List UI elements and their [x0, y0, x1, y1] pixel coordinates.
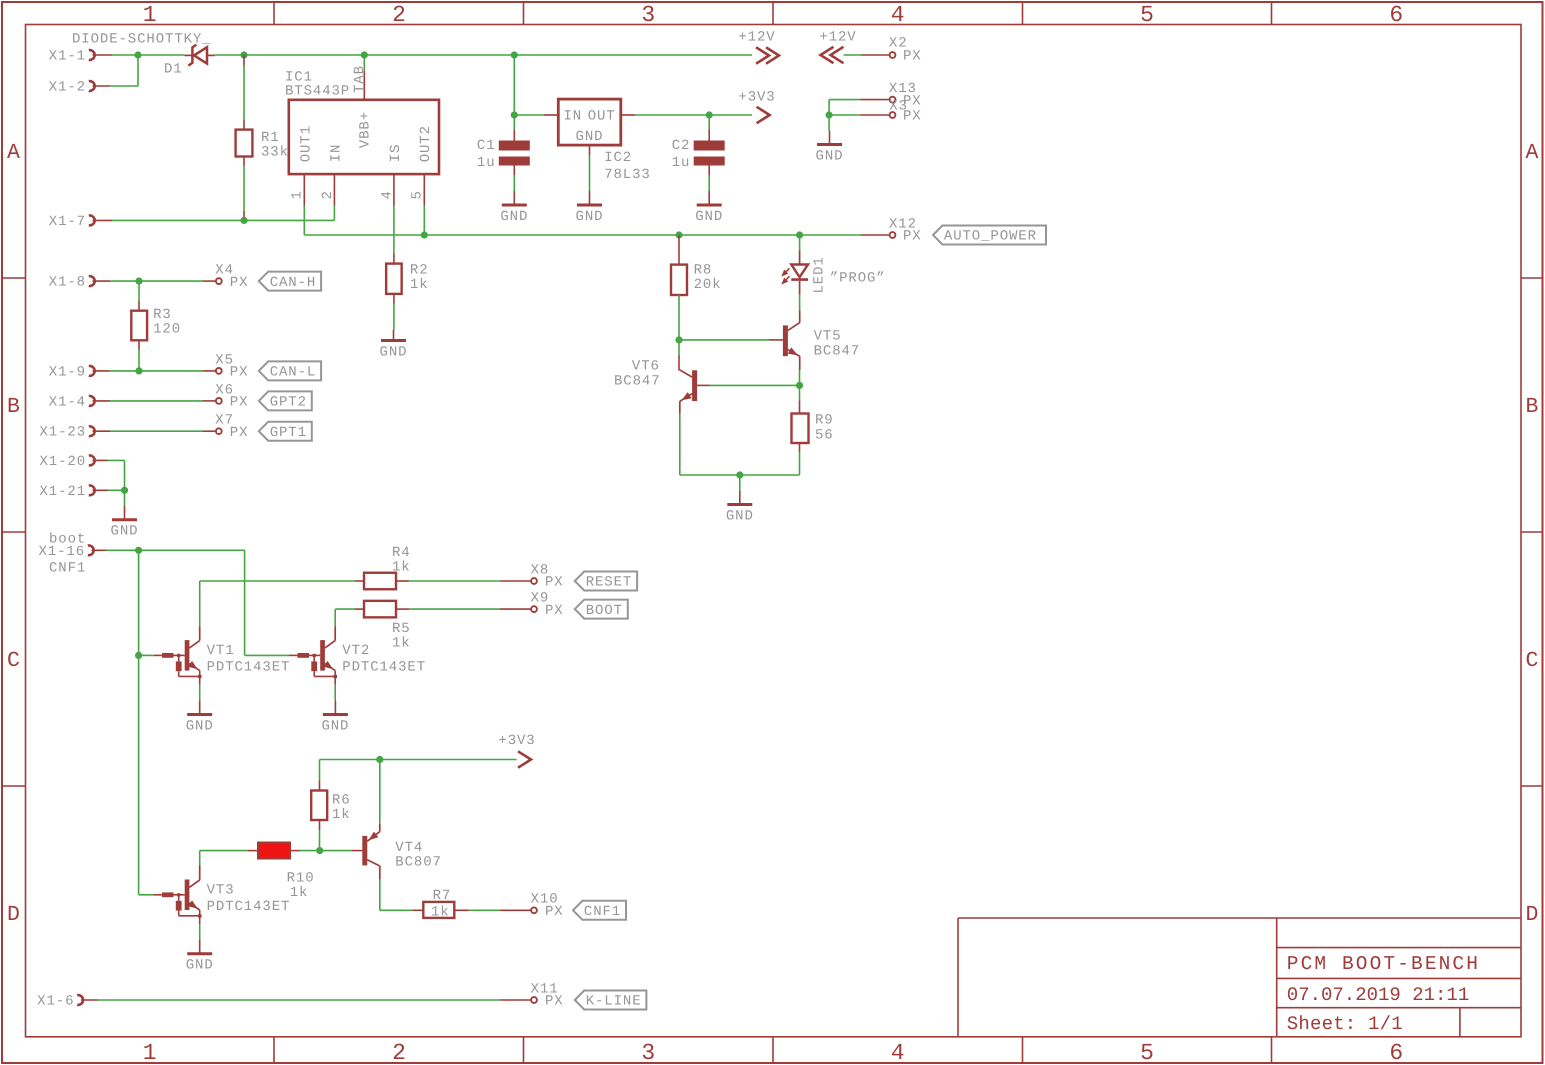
svg-text:R7: R7	[433, 888, 452, 904]
wire	[621, 114, 752, 116]
pin X1-23	[39, 425, 94, 441]
wire	[799, 385, 801, 413]
svg-text:IC2: IC2	[604, 150, 632, 166]
svg-text:X1-20: X1-20	[39, 454, 86, 470]
wire	[396, 608, 531, 610]
svg-text:PX: PX	[230, 425, 249, 441]
ground GND (C1)	[500, 191, 528, 225]
svg-text:4: 4	[379, 190, 395, 199]
wire	[679, 339, 783, 341]
wire	[799, 443, 801, 475]
node junction bottom gnd	[736, 471, 743, 478]
pin X8	[531, 562, 564, 590]
pin X1-8	[49, 275, 95, 291]
svg-text:1k: 1k	[332, 807, 351, 823]
ground GND (X13)	[816, 131, 844, 165]
wire	[215, 54, 753, 56]
node junction R6/R10/VT4 base	[316, 847, 323, 854]
pin X1-9	[49, 364, 95, 380]
svg-text:GND: GND	[321, 719, 349, 735]
svg-text:PX: PX	[230, 365, 249, 381]
wire	[139, 654, 162, 656]
wire	[363, 55, 365, 70]
ground GND (VT2)	[321, 701, 349, 735]
svg-text:OUT: OUT	[588, 109, 616, 125]
pin X4	[215, 263, 248, 291]
wire	[199, 581, 201, 641]
svg-text:TAB: TAB	[352, 65, 368, 93]
wire	[199, 851, 201, 880]
net flag GPT1	[259, 422, 312, 441]
wire	[93, 370, 216, 372]
wire	[680, 413, 800, 475]
svg-text:X1-6: X1-6	[37, 994, 74, 1010]
title block	[958, 918, 1521, 1037]
node junction LED1 top	[796, 231, 803, 238]
svg-text:4: 4	[891, 1040, 905, 1065]
svg-text:X1-9: X1-9	[49, 364, 86, 380]
wire	[380, 880, 424, 911]
svg-text:VT6: VT6	[632, 359, 660, 375]
svg-text:5: 5	[410, 190, 426, 199]
svg-text:6: 6	[1389, 1040, 1403, 1065]
svg-text:BC847: BC847	[814, 343, 861, 359]
svg-text:Sheet: 1/1: Sheet: 1/1	[1287, 1013, 1403, 1035]
IC voltage regulator IC2 78L33	[558, 99, 650, 183]
svg-text:C2: C2	[672, 138, 691, 154]
svg-text:PX: PX	[230, 395, 249, 411]
wire	[243, 55, 245, 130]
svg-text:2: 2	[320, 190, 336, 199]
net flag BOOT	[575, 600, 628, 619]
wire	[200, 850, 258, 852]
svg-text:CAN-L: CAN-L	[270, 365, 317, 381]
wire	[828, 115, 830, 131]
svg-text:X1-2: X1-2	[49, 80, 86, 96]
svg-text:GND: GND	[500, 209, 528, 225]
svg-text:5: 5	[1140, 2, 1154, 28]
svg-text:1k: 1k	[290, 885, 309, 901]
transistor VT1 PDTC143ET	[162, 640, 290, 678]
supply arrow +3V3 (bottom)	[498, 733, 535, 768]
svg-text:PX: PX	[903, 229, 922, 245]
svg-text:BOOT: BOOT	[586, 603, 623, 619]
svg-text:C1: C1	[477, 138, 496, 154]
wire	[138, 340, 140, 371]
wire	[829, 114, 889, 116]
svg-text:33k: 33k	[261, 145, 289, 161]
pin X1-2	[49, 80, 95, 96]
node junction OUT2	[421, 231, 428, 238]
svg-text:PX: PX	[545, 904, 564, 920]
svg-text:1k: 1k	[392, 635, 411, 651]
wire	[333, 206, 335, 221]
wire	[334, 676, 336, 700]
svg-text:PDTC143ET: PDTC143ET	[342, 660, 426, 676]
svg-text:IN: IN	[564, 109, 583, 125]
svg-text:CNF1: CNF1	[49, 561, 86, 577]
svg-text:VT2: VT2	[342, 643, 370, 659]
svg-text:VT3: VT3	[207, 883, 235, 899]
ground GND (IC2)	[576, 191, 604, 225]
diode D1 (schottky)	[164, 45, 215, 78]
node junction R8 top	[675, 231, 682, 238]
svg-text:2: 2	[392, 2, 406, 28]
supply arrow +12V	[738, 30, 779, 64]
wire	[304, 206, 889, 236]
wire	[199, 916, 201, 940]
net flag RESET	[575, 572, 637, 591]
node junction VT5 emitter / VT6 base	[796, 382, 803, 389]
svg-text:GND: GND	[576, 129, 604, 145]
wire	[513, 166, 515, 192]
svg-text:1: 1	[290, 190, 306, 199]
ground GND (X1-20/21)	[111, 506, 139, 540]
wire	[678, 340, 680, 371]
wire	[93, 54, 185, 56]
wire	[678, 295, 680, 340]
svg-text:+12V: +12V	[738, 30, 775, 46]
node junction X1-21	[121, 487, 128, 494]
svg-text:1u: 1u	[477, 155, 496, 171]
svg-text:VBB+: VBB+	[358, 111, 374, 148]
wire	[319, 820, 321, 851]
svg-text:A: A	[1526, 141, 1539, 165]
wire	[290, 850, 362, 852]
pin X1-4	[49, 394, 95, 410]
pin X5	[215, 352, 248, 380]
wire	[799, 294, 801, 310]
ground GND (C2)	[695, 191, 723, 225]
svg-text:GND: GND	[111, 524, 139, 540]
wire	[393, 294, 395, 330]
svg-text:B: B	[1526, 395, 1539, 419]
node junction VT1 base	[135, 652, 142, 659]
resistor R7 (boxed value)	[423, 888, 454, 921]
node junction R8/VT5 base	[675, 336, 682, 343]
svg-text:CNF1: CNF1	[584, 904, 621, 920]
pin X1-20	[39, 454, 94, 470]
svg-text:5: 5	[1140, 1040, 1154, 1065]
net flag CNF1	[573, 901, 626, 920]
wire	[138, 550, 140, 895]
svg-text:+3V3: +3V3	[498, 733, 535, 749]
svg-text:GPT2: GPT2	[270, 395, 307, 411]
node junction R1 top	[240, 51, 247, 58]
svg-text:GND: GND	[816, 149, 844, 165]
svg-text:PX: PX	[230, 275, 249, 291]
node junction boot	[135, 547, 142, 554]
node junction R3 bottom	[135, 367, 142, 374]
wire	[319, 760, 321, 791]
svg-text:PX: PX	[903, 109, 922, 125]
svg-text:X1-7: X1-7	[49, 214, 86, 230]
net flag CAN-H	[259, 272, 321, 291]
wire	[514, 114, 558, 116]
pin X3	[889, 99, 921, 125]
svg-text:X1-8: X1-8	[49, 275, 86, 291]
LED LED1 PROG	[781, 250, 885, 294]
svg-text:PX: PX	[545, 603, 564, 619]
wire	[93, 460, 125, 490]
wire	[81, 999, 531, 1001]
svg-text:1: 1	[143, 1040, 157, 1065]
svg-text:R9: R9	[815, 413, 834, 429]
svg-text:2: 2	[392, 1040, 406, 1065]
pin X1-6	[37, 994, 83, 1010]
svg-text:RESET: RESET	[586, 575, 633, 591]
wire (IC2 gnd)	[589, 145, 591, 191]
diode D1 label DIODE-SCHOTTKY_	[72, 32, 212, 48]
svg-text:07.07.2019 21:11: 07.07.2019 21:11	[1287, 984, 1469, 1006]
svg-text:VT4: VT4	[395, 840, 423, 856]
pin X11	[531, 981, 564, 1009]
wire	[138, 281, 140, 311]
pin X13	[889, 81, 922, 109]
svg-text:IS: IS	[388, 144, 404, 163]
wire	[697, 384, 796, 386]
ground GND (VT6/R9)	[726, 491, 754, 525]
svg-text:GND: GND	[186, 719, 214, 735]
wire	[393, 206, 395, 264]
node junction X1-1/X1-2	[134, 51, 141, 58]
pin X10	[531, 892, 564, 921]
net flag CAN-L	[259, 361, 321, 380]
svg-text:X1-4: X1-4	[49, 394, 86, 410]
svg-text:AUTO_POWER: AUTO_POWER	[944, 229, 1037, 245]
svg-text:LED1: LED1	[812, 256, 828, 293]
pin X9	[531, 591, 564, 619]
pin X1-1	[49, 49, 95, 65]
svg-text:1k: 1k	[410, 277, 429, 293]
resistor R10 (filled)	[258, 843, 315, 901]
net flag AUTO_POWER	[933, 226, 1046, 245]
wire	[678, 235, 680, 265]
svg-text:BC847: BC847	[614, 373, 661, 389]
pin X1-21	[39, 484, 94, 500]
svg-text:GND: GND	[186, 958, 214, 974]
svg-text:1k: 1k	[392, 560, 411, 576]
svg-text:K-LINE: K-LINE	[586, 994, 642, 1010]
pin X12	[889, 217, 922, 245]
pin X1-16 boot	[38, 532, 93, 577]
svg-text:PX: PX	[545, 575, 564, 591]
svg-text:PDTC143ET: PDTC143ET	[207, 660, 291, 676]
svg-text:PDTC143ET: PDTC143ET	[207, 899, 291, 915]
svg-text:VT5: VT5	[814, 329, 842, 345]
wire	[245, 550, 298, 655]
svg-text:VT1: VT1	[207, 643, 235, 659]
svg-text:PX: PX	[903, 49, 922, 65]
transistor VT3 PDTC143ET	[162, 880, 290, 918]
svg-text:boot: boot	[49, 532, 86, 548]
wire	[93, 280, 216, 282]
svg-text:”PROG”: ”PROG”	[830, 271, 886, 287]
ground GND (R2)	[380, 330, 408, 361]
supply arrow +3V3	[738, 90, 775, 124]
transistor VT4 BC807	[362, 832, 442, 880]
svg-text:78L33: 78L33	[604, 167, 651, 183]
resistor R8	[671, 262, 722, 295]
wire	[320, 759, 517, 761]
wire	[513, 55, 515, 115]
svg-text:X1-21: X1-21	[39, 484, 86, 500]
wire	[93, 400, 216, 402]
node junction C2	[706, 111, 713, 118]
node junction X13 gnd	[826, 111, 833, 118]
svg-text:D: D	[7, 903, 20, 927]
svg-text:B: B	[7, 395, 20, 419]
wire	[379, 760, 381, 832]
svg-text:X1-1: X1-1	[49, 49, 86, 65]
wire	[124, 490, 126, 506]
wire	[454, 909, 531, 911]
resistor R6	[311, 791, 350, 823]
wire	[93, 219, 335, 221]
pin X7	[215, 413, 248, 441]
node junction VT4 emitter rail	[376, 756, 383, 763]
svg-text:1u: 1u	[672, 155, 691, 171]
pin X6	[215, 382, 248, 410]
svg-text:C: C	[7, 649, 20, 673]
svg-text:6: 6	[1389, 2, 1403, 28]
node junction TAB	[361, 51, 368, 58]
svg-text:PCM BOOT-BENCH: PCM BOOT-BENCH	[1287, 953, 1480, 975]
transistor VT6 BC847	[614, 359, 697, 414]
svg-text:GND: GND	[576, 209, 604, 225]
svg-text:56: 56	[815, 427, 834, 443]
svg-text:X1-23: X1-23	[39, 425, 86, 441]
capacitor C2	[672, 115, 725, 171]
svg-text:GND: GND	[726, 509, 754, 525]
wire	[93, 55, 139, 86]
svg-text:OUT2: OUT2	[418, 125, 434, 162]
wire	[92, 549, 245, 551]
svg-text:GND: GND	[695, 209, 723, 225]
svg-text:120: 120	[153, 321, 181, 337]
wire	[708, 166, 710, 192]
resistor R3	[131, 307, 181, 341]
wire	[139, 894, 162, 896]
node junction R3 top	[135, 278, 142, 285]
svg-text:D: D	[1526, 903, 1539, 927]
svg-text:CAN-H: CAN-H	[270, 275, 317, 291]
node junction C1	[511, 111, 518, 118]
wire	[200, 580, 364, 582]
wire	[93, 430, 216, 432]
svg-text:20k: 20k	[694, 277, 722, 293]
wire	[335, 608, 364, 610]
pin X1-7	[49, 214, 95, 230]
supply arrow +12V (X2)	[819, 30, 856, 64]
net flag K-LINE	[575, 991, 647, 1010]
svg-text:OUT1: OUT1	[298, 125, 314, 162]
svg-text:GND: GND	[380, 345, 408, 361]
svg-text:4: 4	[891, 2, 905, 28]
ground GND (VT3)	[186, 940, 214, 974]
node junction R1 bottom	[240, 217, 247, 224]
wire	[396, 580, 531, 582]
wire	[93, 489, 125, 491]
svg-text:BTS443P: BTS443P	[285, 84, 350, 100]
svg-text:1k: 1k	[431, 905, 450, 921]
svg-text:1: 1	[143, 2, 157, 28]
ground GND (VT1)	[186, 701, 214, 735]
IC U1 high-side switch IC1 BTS443P	[285, 65, 439, 205]
resistor R4	[364, 545, 411, 589]
wire	[739, 475, 741, 491]
resistor R5	[364, 601, 411, 652]
pin X2	[889, 35, 922, 64]
svg-text:+12V: +12V	[819, 30, 856, 46]
svg-text:BC807: BC807	[395, 855, 442, 871]
resistor R9	[792, 413, 834, 444]
transistor VT5 BC847	[783, 311, 860, 371]
net flag GPT2	[259, 391, 312, 410]
wire	[799, 235, 801, 250]
wire	[799, 356, 801, 385]
node junction C1/IC2 branch	[511, 51, 518, 58]
svg-text:DIODE-SCHOTTKY_: DIODE-SCHOTTKY_	[72, 32, 212, 48]
svg-text:3: 3	[641, 1040, 655, 1065]
svg-text:3: 3	[641, 2, 655, 28]
svg-text:IN: IN	[328, 144, 344, 163]
svg-text:PX: PX	[545, 994, 564, 1010]
resistor R2	[386, 262, 428, 294]
svg-text:+3V3: +3V3	[738, 90, 775, 106]
wire	[199, 676, 201, 700]
transistor VT2 PDTC143ET	[298, 640, 427, 678]
resistor R1	[236, 130, 289, 161]
wire	[423, 206, 425, 236]
wire	[334, 609, 336, 641]
svg-text:D1: D1	[164, 62, 183, 78]
svg-text:C: C	[1526, 649, 1539, 673]
wire	[829, 100, 889, 115]
wire	[844, 54, 890, 56]
wire	[243, 157, 245, 221]
svg-text:A: A	[7, 141, 20, 165]
capacitor C1	[477, 115, 530, 171]
svg-text:GPT1: GPT1	[270, 425, 307, 441]
